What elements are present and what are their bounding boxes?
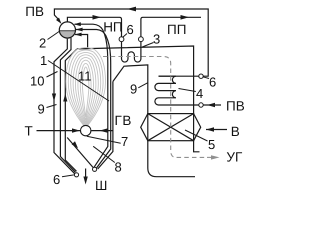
svg-text:В: В (231, 124, 240, 139)
svg-text:6: 6 (127, 22, 134, 37)
svg-text:Ш: Ш (95, 178, 107, 193)
svg-text:6: 6 (209, 75, 216, 90)
svg-text:ПП: ПП (167, 22, 186, 37)
svg-text:1: 1 (40, 53, 47, 68)
svg-text:НП: НП (103, 19, 122, 34)
svg-text:9: 9 (130, 82, 137, 97)
svg-text:11: 11 (78, 69, 92, 84)
svg-text:10: 10 (30, 74, 44, 89)
svg-text:ПВ: ПВ (226, 99, 245, 114)
svg-text:8: 8 (115, 160, 122, 175)
svg-text:УГ: УГ (226, 150, 243, 165)
svg-text:2: 2 (39, 36, 46, 51)
svg-text:5: 5 (208, 137, 215, 152)
svg-text:4: 4 (196, 86, 203, 101)
svg-text:3: 3 (153, 32, 160, 47)
svg-text:6: 6 (53, 172, 60, 187)
svg-text:ПВ: ПВ (25, 4, 44, 19)
svg-text:ГВ: ГВ (115, 113, 133, 128)
svg-text:Т: Т (25, 124, 33, 139)
svg-text:7: 7 (121, 134, 128, 149)
svg-text:9: 9 (38, 102, 45, 117)
